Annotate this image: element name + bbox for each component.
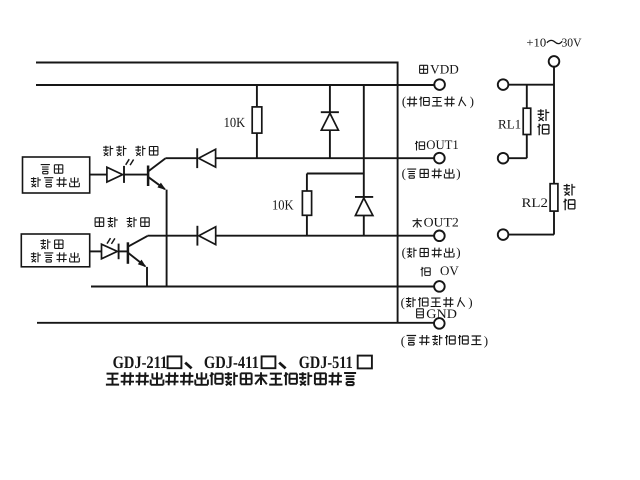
transistor Q2 collector [128, 236, 148, 247]
svg-text:): ) [470, 94, 474, 109]
label 绿灯 指示 [103, 146, 158, 156]
label (暗通输出) [402, 245, 461, 260]
label 白OUT1 [415, 137, 459, 152]
wire top rail with right-side vertical [36, 63, 398, 323]
label 黑GND [417, 306, 457, 321]
label 红灯 指示 [95, 217, 149, 227]
svg-text:+10: +10 [526, 36, 546, 50]
wire supply vertical lower [509, 211, 554, 235]
svg-text:RL1: RL1 [498, 117, 521, 132]
wire branch2 vertical from VDD [363, 85, 365, 196]
svg-text:10K: 10K [224, 116, 246, 131]
svg-text:OV: OV [440, 263, 459, 278]
label 负载 (RL2) [564, 184, 576, 210]
block box 亮通控制输出 [23, 157, 90, 193]
node junction VDD row [509, 84, 554, 86]
caption square 2 [262, 356, 276, 368]
caption GDJ-211 [113, 352, 168, 372]
svg-text:GND: GND [426, 306, 457, 321]
LED D6 red with cathode bar [102, 244, 119, 260]
svg-text:10K: 10K [272, 199, 294, 214]
resistor RL2 in line [550, 184, 558, 211]
svg-text:): ) [484, 333, 488, 348]
LED2 light emission marks [107, 238, 115, 244]
diode D1 (clamp to VDD) [321, 85, 339, 158]
diode D4 series on OUT2 [197, 226, 215, 246]
svg-text:GDJ-211: GDJ-211 [113, 352, 168, 372]
caption comma 2 [279, 363, 285, 369]
wire LED2 to Q2 base [119, 250, 128, 252]
label RL1 [498, 117, 521, 132]
label 黄OUT2 [413, 215, 459, 230]
svg-text:(: ( [402, 245, 406, 260]
label 负载 (RL1) [538, 109, 550, 135]
svg-text:OUT2: OUT2 [424, 215, 459, 230]
wire branch2 stub to R2 [307, 173, 364, 175]
terminal VDD [434, 79, 445, 90]
label +10~30V [526, 36, 581, 50]
svg-text:(: ( [401, 294, 405, 309]
transistor Q1 emitter with arrow [148, 177, 166, 190]
label 10K for R2 [272, 199, 294, 214]
caption line 2 [106, 372, 356, 385]
wire box2 to LED2 [90, 250, 102, 252]
wire OUT2 line right segment [216, 235, 435, 237]
svg-text:RL2: RL2 [522, 195, 549, 210]
wire OUT1 line left segment [165, 157, 197, 159]
label 红VDD [420, 61, 459, 76]
label 控制输出 (box2) [31, 252, 79, 262]
wire Q1 emitter drop [166, 190, 168, 287]
wire box1 to LED1 [90, 174, 107, 176]
label (外壳屏蔽接地) [401, 333, 488, 348]
terminal supply + [549, 56, 560, 67]
wire OUT2 line left segment [148, 235, 198, 237]
terminal OV [434, 281, 445, 292]
wire supply vertical upper [553, 67, 555, 184]
svg-text:VDD: VDD [430, 61, 459, 76]
caption GDJ-511 [299, 352, 353, 372]
label (亮通输出) [402, 166, 461, 181]
svg-text:GDJ-511: GDJ-511 [299, 352, 353, 372]
wire GND line [37, 322, 434, 324]
label 10K for R1 [224, 116, 246, 131]
svg-text:): ) [468, 294, 472, 309]
svg-text:(: ( [402, 94, 406, 109]
label 暗通 [41, 239, 64, 249]
caption square 1 [168, 356, 182, 368]
label (正电源输入) [402, 94, 474, 109]
svg-text:(: ( [402, 166, 406, 181]
caption comma 1 [185, 363, 191, 369]
svg-text:GDJ-411: GDJ-411 [204, 352, 259, 372]
label RL2 [522, 195, 549, 210]
terminal OUT1 [434, 153, 445, 164]
terminal load L2 [498, 153, 509, 164]
resistor R1 10K with leads [252, 85, 262, 158]
transistor Q2 base bar [127, 242, 130, 263]
svg-text:30V: 30V [562, 36, 582, 50]
wire OUT1 line right segment [215, 157, 434, 159]
transistor Q1 collector [148, 158, 166, 171]
terminal load L1 [498, 79, 509, 90]
svg-text:OUT1: OUT1 [426, 137, 459, 152]
svg-text:): ) [456, 166, 460, 181]
wire Q2 emitter drop [146, 267, 148, 287]
LED1 light emission marks [126, 159, 134, 165]
transistor Q2 emitter with arrow [128, 253, 146, 267]
svg-text:(: ( [401, 333, 405, 348]
wire OV line [91, 286, 434, 288]
label 蓝 OV [421, 263, 460, 278]
LED D5 green with cathode bar [107, 166, 124, 183]
diode D2 (clamp to VDD) [355, 197, 373, 236]
wire LED1 to Q1 base [124, 174, 148, 176]
label 亮通 [41, 165, 63, 174]
caption GDJ-411 [204, 352, 259, 372]
terminal OUT2 [434, 231, 445, 242]
label (负电源输入) [401, 294, 473, 309]
label 控制输出 (box1) [31, 177, 79, 187]
caption square 3 [358, 356, 372, 369]
svg-text:): ) [456, 245, 460, 260]
block box 暗通控制输出 [21, 234, 89, 267]
diode D3 series on OUT1 [197, 148, 215, 168]
terminal load L3 [498, 229, 509, 240]
load RL1 branch with resistor [509, 85, 531, 159]
transistor Q1 base bar [147, 166, 150, 187]
wire VDD rail [36, 84, 434, 86]
terminal GND [434, 318, 445, 329]
resistor R2 10K with leads [302, 174, 311, 236]
